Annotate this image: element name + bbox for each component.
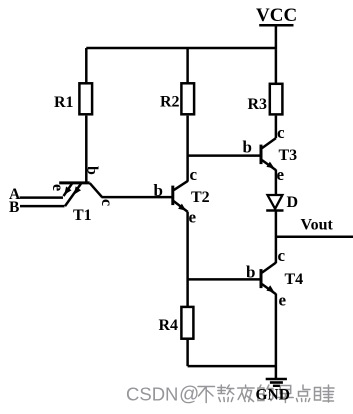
svg-text:@: @ (179, 384, 199, 406)
T1 emitter 1 arrowhead (64, 187, 71, 195)
ground bar 1 (266, 378, 287, 381)
wire T4 emitter to ground (275, 294, 278, 380)
wire R3 top lead (275, 49, 278, 84)
svg-text:e: e (277, 165, 285, 184)
wire T1 collector to T2 base (102, 196, 174, 199)
transistor T4 base bar (260, 269, 263, 288)
wire diode to Vout node (275, 211, 278, 264)
wire R2 bottom lead / T2 collector lead (186, 116, 189, 182)
svg-text:T3: T3 (279, 147, 298, 164)
T3 emitter arrowhead (266, 162, 274, 169)
svg-text:Vout: Vout (301, 217, 334, 234)
diode D cathode bar (266, 209, 283, 212)
wire R1 top lead (85, 48, 88, 83)
svg-text:GND: GND (256, 387, 290, 404)
svg-text:c: c (190, 165, 198, 184)
char ao (218, 385, 234, 402)
wire R4 bottom lead (186, 340, 189, 367)
svg-text:B: B (9, 199, 19, 216)
wire branch to T4 base (188, 278, 261, 281)
char de (258, 385, 273, 401)
wire R3 bottom lead / T3 collector lead (275, 116, 278, 139)
wire Vout (276, 236, 353, 239)
wire input B (20, 205, 65, 208)
T1 emitter 2 arrowhead (74, 186, 81, 194)
char bu (198, 387, 215, 403)
transistor T1 emitter 1 (64, 184, 73, 197)
svg-text:b: b (243, 138, 252, 157)
transistor T3 collector diagonal (262, 138, 276, 148)
transistor T2 base bar (171, 186, 174, 206)
transistor T3 base bar (260, 145, 263, 165)
wire VCC lead down to rail (275, 25, 278, 49)
svg-text:T4: T4 (285, 271, 304, 288)
resistor R4 (181, 307, 193, 339)
resistor R2 (181, 83, 194, 114)
svg-text:c: c (277, 123, 285, 142)
svg-text:e: e (189, 208, 197, 227)
T2 emitter arrowhead (178, 204, 186, 211)
svg-text:R4: R4 (159, 317, 179, 334)
svg-text:c: c (278, 246, 286, 265)
transistor T1 emitter 2 (65, 184, 81, 207)
wire R2 top lead (186, 48, 189, 83)
svg-text:R1: R1 (54, 94, 74, 111)
wire top rail (86, 47, 276, 50)
wire T2 emitter down to R4 (186, 212, 189, 307)
svg-text:VCC: VCC (256, 5, 297, 26)
svg-text:b: b (246, 263, 255, 282)
arrowheads (64, 162, 274, 293)
resistor R1 (79, 83, 92, 114)
T4 emitter arrowhead (266, 285, 274, 292)
svg-text:T2: T2 (191, 189, 210, 206)
transistor T4 collector diagonal (262, 263, 276, 273)
char shui (315, 385, 335, 402)
resistor R3 (270, 84, 283, 115)
svg-text:b: b (84, 166, 101, 175)
wire T3 emitter to diode (275, 170, 278, 195)
transistor T3 emitter diagonal (262, 160, 276, 170)
transistor T2 emitter diagonal (173, 201, 187, 212)
wire T2 collector junction to T3 base (188, 154, 260, 157)
wire bottom rail to ground (188, 365, 276, 368)
transistor T1 base bar (59, 181, 89, 184)
svg-text:CSDN: CSDN (126, 384, 178, 405)
transistor T1 collector diagonal (90, 183, 102, 197)
svg-text:e: e (49, 184, 66, 191)
VCC bar (259, 24, 293, 27)
ground bar 2 (270, 381, 283, 384)
svg-text:D: D (287, 194, 299, 211)
transistor T4 emitter diagonal (262, 284, 276, 294)
ground bar 3 (273, 385, 280, 387)
svg-text:b: b (154, 181, 163, 200)
wire input A (20, 196, 64, 199)
svg-text:T1: T1 (73, 207, 92, 224)
char zao (278, 386, 294, 403)
diode D triangle (268, 195, 283, 209)
svg-text:R3: R3 (248, 96, 268, 113)
char dian (297, 385, 311, 402)
wire R1 bottom lead to T1 base (85, 116, 88, 183)
svg-text:c: c (98, 199, 115, 206)
char ye (238, 385, 255, 402)
svg-text:R2: R2 (160, 94, 180, 111)
transistor T2 collector diagonal (174, 181, 188, 190)
svg-text:e: e (279, 291, 287, 310)
watermark CSDN (126, 384, 334, 406)
